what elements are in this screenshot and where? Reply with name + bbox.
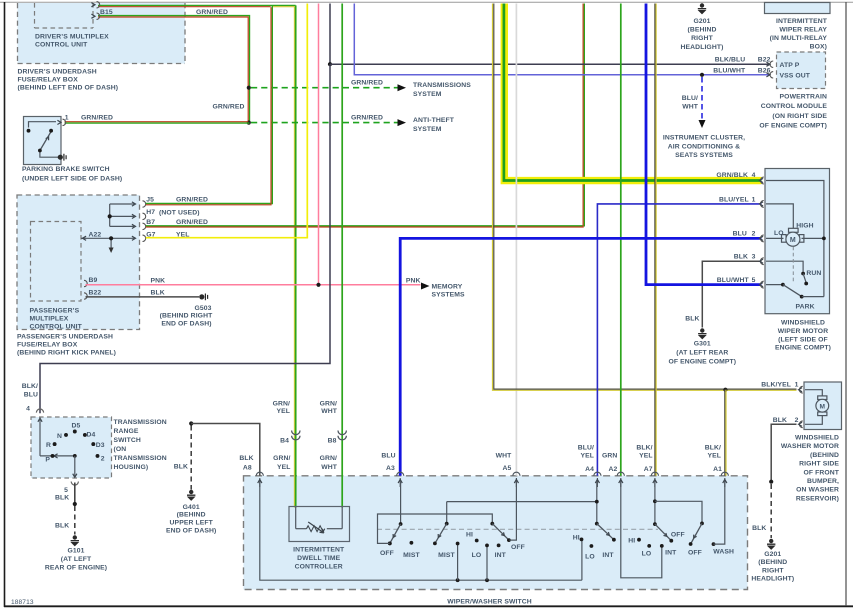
- svg-text:D3: D3: [96, 442, 105, 449]
- svg-text:(BEHIND: (BEHIND: [758, 559, 787, 566]
- svg-text:GRN/RED: GRN/RED: [196, 9, 228, 16]
- svg-text:N: N: [57, 433, 62, 440]
- contact INT section2: [497, 544, 501, 548]
- label GRN/WHT above B8: [320, 400, 338, 415]
- label GRN/WHT above A8 row: [320, 455, 338, 471]
- svg-text:B7: B7: [146, 219, 155, 226]
- connector arcs and entry arrows wiper/washer switch: [256, 472, 728, 487]
- svg-text:MIST: MIST: [403, 552, 420, 559]
- switch section5 pivot and arm: [653, 522, 673, 542]
- svg-text:GRN/RED: GRN/RED: [351, 115, 383, 122]
- svg-text:INT: INT: [665, 550, 677, 557]
- contact D3: [91, 442, 95, 446]
- svg-text:PARKING BRAKE SWITCH: PARKING BRAKE SWITCH: [22, 166, 110, 173]
- windshield washer motor box: [804, 382, 842, 430]
- svg-text:FUSE/RELAY BOX: FUSE/RELAY BOX: [17, 342, 78, 349]
- node A22 junction: [109, 236, 113, 240]
- svg-text:INT: INT: [495, 552, 507, 559]
- svg-text:BLK: BLK: [55, 495, 69, 502]
- label BLK/YEL at A7: [636, 444, 652, 459]
- contact D5: [73, 430, 77, 434]
- svg-text:YEL: YEL: [580, 453, 594, 460]
- svg-text:END OF DASH): END OF DASH): [166, 528, 216, 535]
- label memory systems: [432, 283, 466, 298]
- svg-text:D4: D4: [87, 432, 96, 439]
- contact P: [51, 454, 55, 458]
- wire YEL G7 right and up to top edge: [146, 4, 307, 238]
- svg-text:(BEHIND RIGHT: (BEHIND RIGHT: [160, 312, 213, 319]
- svg-text:(BEHIND LEFT END OF DASH): (BEHIND LEFT END OF DASH): [18, 85, 119, 92]
- svg-text:VSS OUT: VSS OUT: [780, 73, 811, 80]
- svg-text:HEADLIGHT): HEADLIGHT): [681, 44, 724, 51]
- svg-text:AIR CONDITIONING &: AIR CONDITIONING &: [668, 143, 740, 150]
- svg-text:ANTI-THEFT: ANTI-THEFT: [413, 117, 455, 124]
- connector arcs washer motor pins: [799, 386, 803, 427]
- label transmission range switch: [114, 419, 167, 471]
- svg-text:M: M: [790, 237, 796, 244]
- svg-text:A4: A4: [585, 466, 594, 473]
- svg-text:SYSTEMS: SYSTEMS: [432, 292, 466, 299]
- label G401: [166, 504, 216, 535]
- svg-text:BLK: BLK: [239, 455, 253, 462]
- connector arc range switch pin 4: [36, 409, 43, 422]
- label GRN/YEL above B4: [273, 400, 290, 415]
- svg-text:GRN/: GRN/: [320, 455, 337, 462]
- node junction B15/transmissions: [247, 86, 251, 90]
- label powertrain control module: [759, 93, 827, 129]
- svg-text:PASSENGER’S: PASSENGER’S: [30, 308, 80, 315]
- wire A22 link to G7: [81, 236, 136, 253]
- svg-text:BLK: BLK: [174, 464, 188, 471]
- svg-text:WHT: WHT: [321, 408, 338, 415]
- node junction parking brake/anti-theft: [247, 121, 251, 125]
- wire GRN/RED B15 horizontal: [98, 16, 250, 123]
- svg-text:PNK: PNK: [406, 278, 421, 285]
- svg-text:GRN/RED: GRN/RED: [351, 80, 383, 87]
- contact MIST section1: [410, 541, 414, 545]
- svg-text:YEL: YEL: [707, 453, 721, 460]
- svg-text:GRN/: GRN/: [273, 400, 290, 407]
- wire BLK/BLU down-left to transmission range switch: [40, 64, 330, 413]
- svg-text:A2: A2: [609, 466, 618, 473]
- svg-text:G401: G401: [183, 504, 200, 511]
- node BLK/YEL junction to A1: [723, 388, 727, 392]
- svg-text:(LEFT SIDE OF: (LEFT SIDE OF: [778, 336, 828, 343]
- wire GRN/BLK thick to wiper motor pin 4: [504, 4, 762, 181]
- svg-text:DWELL TIME: DWELL TIME: [297, 555, 341, 562]
- wire dashed BLU/WHT to instrument cluster: [701, 77, 703, 119]
- svg-text:2: 2: [795, 417, 799, 424]
- node BLK/BLU junction: [328, 62, 332, 66]
- svg-text:BLU: BLU: [24, 392, 38, 399]
- arrow to anti-theft system: [398, 119, 407, 126]
- svg-text:WIPER MOTOR: WIPER MOTOR: [778, 328, 828, 335]
- connector arcs at PCM pins: [766, 61, 773, 78]
- svg-text:OFF: OFF: [511, 544, 525, 551]
- svg-text:BLK/BLU: BLK/BLU: [715, 57, 746, 64]
- wire BLU thick wiper motor pin 2 to A3: [400, 238, 761, 475]
- svg-text:(BEHIND: (BEHIND: [177, 512, 206, 519]
- wire BLK wiper motor pin 3 to G301: [702, 261, 761, 327]
- contact HI section5: [637, 538, 641, 542]
- switch section1 wiper A3: [388, 481, 403, 545]
- ground G401: [187, 490, 195, 500]
- svg-text:BLU: BLU: [381, 452, 395, 459]
- svg-text:HEADLIGHT): HEADLIGHT): [751, 576, 794, 583]
- svg-text:(AT LEFT: (AT LEFT: [61, 556, 92, 563]
- svg-text:SWITCH: SWITCH: [114, 437, 141, 444]
- connector B8 inline: [338, 431, 346, 440]
- svg-text:OF FRONT: OF FRONT: [803, 469, 839, 476]
- svg-text:WHT: WHT: [496, 452, 513, 459]
- intermittent wiper relay box: [765, 3, 831, 14]
- svg-text:END OF DASH): END OF DASH): [161, 320, 211, 327]
- svg-text:(UNDER LEFT SIDE OF DASH): (UNDER LEFT SIDE OF DASH): [22, 176, 122, 183]
- svg-text:POWERTRAIN: POWERTRAIN: [780, 93, 827, 100]
- contact HI section2: [475, 539, 479, 543]
- ground G503: [199, 294, 207, 301]
- switch section6 pivot and arm: [689, 522, 704, 546]
- arrow to transmissions system: [398, 84, 407, 91]
- svg-text:(BEHIND: (BEHIND: [687, 27, 716, 34]
- switch section4 pivot and arm: [595, 522, 616, 542]
- svg-text:BLU/: BLU/: [682, 95, 698, 102]
- wire BLK from B22 to G503: [86, 296, 200, 298]
- svg-text:OF ENGINE COMPT): OF ENGINE COMPT): [759, 123, 827, 130]
- svg-text:(BEHIND RIGHT KICK PANEL): (BEHIND RIGHT KICK PANEL): [17, 350, 116, 357]
- svg-text:GRN/RED: GRN/RED: [81, 114, 113, 121]
- svg-text:REAR OF ENGINE): REAR OF ENGINE): [45, 564, 107, 571]
- label G101: [45, 547, 107, 571]
- label intermittent wiper relay: [770, 18, 828, 50]
- wire BLK from pin 5: [74, 483, 76, 504]
- svg-text:BLK/: BLK/: [22, 383, 38, 390]
- ground G201 behind right headlight top: [698, 3, 706, 13]
- label instrument cluster systems: [663, 135, 745, 160]
- svg-text:G201: G201: [693, 18, 710, 25]
- wire PNK vertical from top edge: [318, 4, 320, 285]
- wire BLK washer motor pin 2 to G201: [771, 424, 796, 481]
- svg-text:GRN/BLK: GRN/BLK: [716, 172, 748, 179]
- svg-text:DRIVER’S MULTIPLEX: DRIVER’S MULTIPLEX: [35, 34, 109, 41]
- svg-text:BLU: BLU: [733, 230, 747, 237]
- svg-text:INTERMITTENT: INTERMITTENT: [776, 18, 828, 25]
- label intermittent dwell time controller: [293, 547, 345, 571]
- svg-text:BLK: BLK: [734, 254, 748, 261]
- wire dashed GRN/RED to anti-theft system: [251, 122, 398, 124]
- label windshield washer motor: [781, 435, 840, 503]
- svg-text:BLK: BLK: [773, 417, 787, 424]
- wire GRN/YEL down to connector B4 and dwell controller: [294, 5, 295, 507]
- svg-text:PARK: PARK: [796, 303, 815, 310]
- svg-text:CONTROL MODULE: CONTROL MODULE: [761, 103, 828, 110]
- svg-text:B4: B4: [280, 438, 289, 445]
- ground G101: [71, 535, 79, 545]
- svg-text:GRN/: GRN/: [273, 455, 290, 462]
- node bracket junction H7: [108, 214, 112, 218]
- svg-text:BOX): BOX): [810, 43, 827, 50]
- label G503: [160, 305, 213, 328]
- passenger's underdash fuse/relay box: [17, 195, 140, 330]
- ground chassis at parking brake switch: [58, 154, 66, 161]
- svg-text:188713: 188713: [11, 599, 34, 606]
- svg-text:1: 1: [752, 196, 756, 203]
- svg-text:BLU/WHT: BLU/WHT: [713, 67, 746, 74]
- svg-text:B8: B8: [328, 438, 337, 445]
- svg-text:FUSE/RELAY BOX: FUSE/RELAY BOX: [18, 77, 79, 84]
- svg-text:INSTRUMENT CLUSTER,: INSTRUMENT CLUSTER,: [663, 135, 745, 142]
- svg-text:RESERVOIR): RESERVOIR): [796, 495, 839, 502]
- svg-text:B15: B15: [100, 9, 113, 16]
- svg-text:PNK: PNK: [151, 277, 166, 284]
- svg-text:MEMORY: MEMORY: [432, 283, 463, 290]
- svg-text:B26: B26: [758, 67, 771, 74]
- svg-text:H7: H7: [146, 209, 155, 216]
- switch section2 pivot and arm: [433, 502, 449, 546]
- label G201 top: [681, 18, 724, 51]
- svg-text:R: R: [46, 442, 51, 449]
- wire BLK/BLU vertical from top edge: [329, 4, 331, 65]
- park switch arm: [781, 283, 824, 299]
- svg-text:CONTROLLER: CONTROLLER: [295, 563, 343, 570]
- label BLU/YEL at A4: [578, 444, 594, 459]
- svg-text:TRANSMISSION: TRANSMISSION: [114, 419, 167, 426]
- range switch common wire: [40, 418, 75, 459]
- svg-text:4: 4: [752, 172, 756, 179]
- label G201 bottom: [751, 551, 794, 583]
- svg-text:HOUSING): HOUSING): [114, 464, 149, 471]
- svg-text:G201: G201: [764, 551, 781, 558]
- parking brake switch internals: [29, 122, 59, 158]
- svg-text:4: 4: [26, 406, 30, 413]
- connector arcs J5 H7 B7 G7: [143, 201, 146, 242]
- wire PNK from B9 to memory systems: [86, 284, 421, 286]
- wire GRN/RED B7 right and up to top edge: [146, 4, 585, 228]
- contact 2: [96, 454, 100, 458]
- parking brake switch box: [24, 117, 62, 165]
- contact R: [53, 442, 57, 446]
- node BLU/WHT junction: [700, 73, 704, 77]
- svg-text:5: 5: [64, 487, 68, 494]
- svg-text:GRN/RED: GRN/RED: [212, 104, 244, 111]
- svg-text:PASSENGER’S UNDERDASH: PASSENGER’S UNDERDASH: [17, 334, 113, 341]
- svg-text:WIPER RELAY: WIPER RELAY: [779, 27, 827, 34]
- svg-text:(NOT USED): (NOT USED): [159, 210, 200, 217]
- node BLK G101 junction: [73, 502, 77, 506]
- ground G201 bottom: [767, 539, 775, 549]
- svg-text:YEL: YEL: [276, 408, 290, 415]
- svg-text:G101: G101: [67, 547, 84, 554]
- arrow to instrument cluster: [699, 120, 706, 128]
- wire WHT from top edge to A5: [515, 4, 517, 476]
- contact D4: [83, 433, 87, 437]
- wire GRN/RED from driver's multiplex top pin to B4 branch: [98, 5, 296, 6]
- svg-text:ON WASHER: ON WASHER: [796, 487, 839, 494]
- svg-text:P: P: [45, 456, 50, 463]
- svg-text:2: 2: [101, 455, 105, 462]
- svg-text:A5: A5: [503, 465, 512, 472]
- svg-text:D5: D5: [72, 422, 81, 429]
- node range switch pivot: [73, 454, 77, 458]
- wire GRN from top edge to A2: [620, 4, 622, 476]
- label BLK/YEL at A1: [705, 444, 721, 459]
- svg-text:RIGHT: RIGHT: [691, 35, 713, 42]
- contact N: [64, 433, 68, 437]
- svg-text:YEL: YEL: [639, 453, 653, 460]
- node G401 junction: [189, 421, 193, 425]
- svg-text:ATP P: ATP P: [780, 62, 800, 69]
- bracket wires inside passenger's box: [110, 202, 136, 229]
- wire section2 pivot rail to A4: [447, 481, 597, 524]
- arrow to memory systems: [421, 283, 430, 290]
- svg-text:YEL: YEL: [277, 464, 291, 471]
- svg-text:(IN MULTI-RELAY: (IN MULTI-RELAY: [770, 35, 828, 42]
- wire A2 internal to INT5: [621, 481, 662, 578]
- svg-text:MIST: MIST: [438, 552, 455, 559]
- svg-text:BLK: BLK: [752, 525, 766, 532]
- wire BLU/WHT from top edge to PCM B26: [354, 4, 770, 75]
- svg-text:DRIVER’S UNDERDASH: DRIVER’S UNDERDASH: [18, 69, 97, 76]
- wire BLK from G401 junction to A8: [191, 424, 260, 476]
- wire range switch pivot to pin 5: [74, 456, 76, 477]
- svg-text:WHT: WHT: [321, 464, 338, 471]
- svg-text:RIGHT: RIGHT: [762, 567, 784, 574]
- svg-text:B22: B22: [758, 57, 771, 64]
- wire GRN/WHT from top edge through B8 to dwell controller: [341, 4, 343, 508]
- svg-text:OF ENGINE COMPT): OF ENGINE COMPT): [668, 358, 736, 365]
- contact WASH: [712, 542, 716, 546]
- svg-text:A7: A7: [644, 466, 653, 473]
- label driver's multiplex control unit: [35, 34, 109, 49]
- powertrain control module box: [777, 52, 826, 89]
- svg-text:LO: LO: [472, 552, 482, 559]
- ground G301: [698, 328, 706, 338]
- svg-text:UPPER LEFT: UPPER LEFT: [170, 520, 214, 527]
- svg-text:CONTROL UNIT: CONTROL UNIT: [30, 324, 83, 331]
- svg-text:BLK/: BLK/: [636, 444, 652, 451]
- svg-text:OFF: OFF: [688, 550, 702, 557]
- node PNK junction: [316, 283, 320, 287]
- switch section3 pivot and arm: [490, 522, 510, 542]
- svg-text:INTERMITTENT: INTERMITTENT: [293, 547, 345, 554]
- svg-text:BLU/: BLU/: [578, 444, 594, 451]
- label passenger's underdash fuse/relay box: [17, 334, 116, 357]
- svg-text:BLU/YEL: BLU/YEL: [719, 196, 749, 203]
- svg-text:RIGHT SIDE: RIGHT SIDE: [799, 461, 839, 468]
- node wiper motor right junction: [822, 237, 826, 241]
- svg-text:J5: J5: [146, 197, 154, 204]
- svg-text:B22: B22: [89, 289, 102, 296]
- svg-text:TRANSMISSION: TRANSMISSION: [114, 455, 167, 462]
- connector arcs at driver's multiplex pins: [91, 2, 99, 20]
- contact INT section5: [660, 544, 664, 548]
- riser HI section4 to bus: [581, 539, 583, 580]
- svg-text:WHT: WHT: [682, 104, 699, 111]
- svg-text:M: M: [820, 404, 826, 411]
- wire BLK/YEL from top edge to washer motor pin 1: [493, 4, 797, 391]
- svg-text:WINDSHIELD: WINDSHIELD: [781, 320, 825, 327]
- riser contact to bus 1: [456, 542, 460, 581]
- svg-text:BLU/WHT: BLU/WHT: [717, 277, 750, 284]
- svg-text:3: 3: [752, 254, 756, 261]
- connector arc parking brake pin 1: [57, 119, 65, 125]
- contact OFF section1: [388, 542, 392, 546]
- svg-text:WASHER MOTOR: WASHER MOTOR: [781, 443, 839, 450]
- wire dashed GRN/RED to transmissions system: [251, 87, 398, 89]
- wire dashed BLK to G201: [770, 484, 772, 538]
- svg-text:WIPER/WASHER SWITCH: WIPER/WASHER SWITCH: [447, 599, 532, 606]
- svg-text:BLK: BLK: [151, 289, 165, 296]
- svg-text:(BEHIND: (BEHIND: [810, 452, 839, 459]
- label passenger's multiplex control unit: [30, 308, 83, 331]
- svg-text:HI: HI: [466, 532, 473, 539]
- label anti-theft system: [413, 117, 455, 133]
- wire A7 internal junction: [653, 481, 702, 524]
- contact LO section4: [590, 544, 594, 548]
- svg-text:(AT LEFT REAR: (AT LEFT REAR: [676, 350, 728, 357]
- label BLK/BLU at range switch: [22, 383, 38, 399]
- svg-text:GRN/RED: GRN/RED: [176, 197, 208, 204]
- svg-text:(ON: (ON: [114, 446, 127, 453]
- svg-text:HI: HI: [628, 537, 635, 544]
- svg-text:BLK: BLK: [55, 522, 69, 529]
- svg-text:LO: LO: [585, 554, 595, 561]
- switch internal A8 ground bus: [260, 481, 582, 580]
- svg-text:TRANSMISSIONS: TRANSMISSIONS: [413, 82, 471, 89]
- contact LO section2: [485, 544, 489, 548]
- svg-text:A3: A3: [386, 465, 395, 472]
- svg-text:RUN: RUN: [806, 270, 821, 277]
- svg-text:WINDSHIELD: WINDSHIELD: [795, 435, 839, 442]
- intermittent dwell time controller box: [289, 507, 350, 542]
- wire BLK/YEL from top edge to A7: [655, 4, 656, 476]
- svg-text:G301: G301: [694, 340, 711, 347]
- wire A5 internal to OFF3: [509, 481, 516, 540]
- svg-text:1: 1: [795, 382, 799, 389]
- contact LO section5: [647, 544, 651, 548]
- svg-text:SEATS SYSTEMS: SEATS SYSTEMS: [675, 152, 733, 159]
- svg-text:LO: LO: [642, 550, 652, 557]
- svg-text:G503: G503: [194, 305, 211, 312]
- connector arcs B9 B22: [84, 280, 87, 299]
- svg-text:2: 2: [752, 230, 756, 237]
- contact HI section4: [580, 538, 584, 542]
- svg-text:LO: LO: [774, 230, 784, 237]
- label BLU/WHT vertical: [682, 95, 699, 111]
- wiper motor internal circuit: [766, 181, 824, 297]
- motor M wiper: [782, 228, 804, 246]
- wire BLU/WHT thick from top edge to wiper motor pin 5: [646, 4, 762, 285]
- wire OFF1 to section3 pivot rail: [378, 514, 493, 543]
- node A4 junction: [595, 500, 599, 504]
- svg-text:SYSTEM: SYSTEM: [413, 91, 442, 98]
- label parking brake switch: [22, 166, 122, 183]
- svg-text:BLK/YEL: BLK/YEL: [761, 382, 791, 389]
- svg-text:HIGH: HIGH: [796, 222, 813, 229]
- svg-text:A22: A22: [89, 231, 102, 238]
- label windshield wiper motor: [775, 320, 831, 352]
- svg-text:INT: INT: [602, 552, 614, 559]
- riser contact to bus 2: [486, 545, 488, 580]
- svg-text:BLK/: BLK/: [705, 444, 721, 451]
- switch linkage dashed line: [377, 528, 658, 530]
- svg-text:B9: B9: [89, 277, 98, 284]
- svg-text:RANGE: RANGE: [114, 428, 139, 435]
- svg-text:GRN/RED: GRN/RED: [176, 219, 208, 226]
- label GRN/YEL above A8 row: [273, 455, 290, 471]
- node bus junction mist riser: [456, 578, 460, 582]
- svg-text:GRN/: GRN/: [320, 400, 337, 407]
